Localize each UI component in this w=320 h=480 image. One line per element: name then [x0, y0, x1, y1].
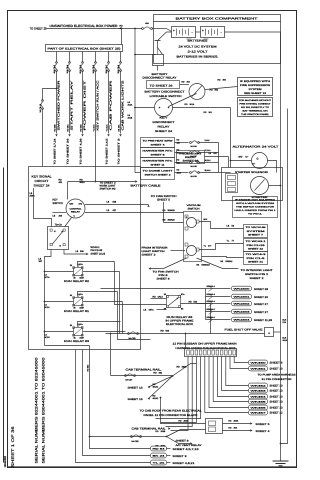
svg-text:2-12 VOLT: 2-12 VOLT — [188, 50, 208, 54]
circuit breaker 9A-C38 — [190, 162, 192, 164]
svg-text:HAS A JUMPER FROM PIN 1: HAS A JUMPER FROM PIN 1 — [235, 209, 277, 212]
svg-text:WK2302: WK2302 — [234, 303, 252, 306]
svg-text:WK455: WK455 — [251, 401, 268, 404]
starter motor — [251, 177, 269, 195]
svg-text:SYSTEM: SYSTEM — [249, 88, 262, 91]
svg-text:SHEET 13: SHEET 13 — [128, 387, 144, 390]
svg-text:YL ACC: YL ACC — [92, 124, 95, 132]
wire run relay feed to sheet rows — [101, 288, 206, 290]
svg-text:SHEET 13: SHEET 13 — [270, 390, 284, 393]
svg-text:G: G — [257, 158, 259, 161]
wire bus down x89 — [90, 346, 151, 449]
wire relay pin 87 bend — [83, 331, 125, 333]
svg-text:PART OF ELECTRICAL BOX (SHEET: PART OF ELECTRICAL BOX (SHEET 25) — [48, 48, 121, 51]
svg-text:WK451: WK451 — [251, 368, 268, 371]
wire fuel valve feed RD 504 — [106, 333, 265, 335]
svg-text:SHEET 1 OF 36: SHEET 1 OF 36 — [11, 427, 15, 468]
svg-text:25A CB-7: 25A CB-7 — [105, 64, 108, 73]
connector terminal — [249, 405, 268, 410]
wire coil to fire suppression note — [205, 87, 238, 90]
svg-text:PIN C1-5: PIN C1-5 — [247, 257, 267, 260]
svg-text:WK2300: WK2300 — [234, 288, 252, 291]
wire alternator BAT to battery cable — [231, 160, 252, 162]
wire branch to sheet — [120, 71, 122, 134]
svg-text:SHEET 4: SHEET 4 — [256, 430, 271, 433]
wire corridor down — [118, 292, 151, 340]
pressure switch vacuum 1 — [187, 218, 197, 228]
svg-text:WK2304: WK2304 — [234, 319, 252, 322]
svg-text:SHEET 2: SHEET 2 — [142, 254, 157, 257]
svg-text:WK2303: WK2303 — [234, 311, 252, 314]
sheet reference HARVESTER RTC SHEET 11 — [141, 158, 175, 168]
wire rail 2 row — [90, 436, 161, 438]
svg-text:TO VACUUM: TO VACUUM — [246, 226, 266, 229]
sheet reference FROM START RELAY SHEET 26 — [177, 151, 205, 164]
svg-text:TO PUMP AREA HARNESS: TO PUMP AREA HARNESS — [258, 374, 297, 377]
wire tap to battery cable bus — [199, 142, 219, 144]
svg-text:328: 328 — [177, 141, 180, 144]
wire busbar drop — [234, 357, 248, 363]
svg-text:SHEET 13: SHEET 13 — [270, 401, 284, 404]
label SHEET 4,5,7,13 — [167, 448, 171, 450]
connector WK2304 — [232, 317, 252, 322]
svg-text:WK456: WK456 — [251, 407, 268, 410]
svg-text:WK453: WK453 — [251, 390, 268, 393]
wire unswitched power bus — [47, 28, 142, 30]
svg-text:9A-C37: 9A-C37 — [126, 379, 134, 382]
svg-text:+: + — [173, 29, 175, 33]
svg-text:RD 40C: RD 40C — [66, 124, 69, 132]
wire into key switch BAT — [67, 182, 69, 200]
wire branch to sheet — [108, 71, 110, 134]
wire tap RD 350A — [175, 172, 189, 174]
svg-text:SHEET 13: SHEET 13 — [270, 385, 284, 388]
svg-text:BK 24: BK 24 — [153, 455, 167, 458]
svg-text:301A: 301A — [190, 103, 195, 106]
svg-text:SHEET 21: SHEET 21 — [248, 261, 264, 264]
svg-text:TO CAB ROOF FROM REAR ELECTRIC: TO CAB ROOF FROM REAR ELECTRICAL — [140, 410, 203, 413]
svg-text:SHEET 8: SHEET 8 — [151, 154, 166, 157]
svg-text:RELAY: RELAY — [71, 211, 81, 214]
svg-text:HARVESTER RTC: HARVESTER RTC — [143, 150, 174, 153]
svg-text:PIN C2+26: PIN C2+26 — [247, 244, 266, 247]
svg-text:RD: RD — [161, 330, 165, 333]
svg-text:SHEET 13: SHEET 13 — [270, 396, 284, 399]
svg-text:CAB POWER: CAB POWER — [109, 81, 113, 131]
svg-text:SHEET 6: SHEET 6 — [270, 362, 284, 365]
sheet reference TO DOME LIGHT SWITCH SHEET 2 — [141, 168, 175, 180]
svg-text:WK2301: WK2301 — [234, 296, 252, 299]
label SHEET 4,8,21 — [167, 462, 171, 464]
svg-text:RD: RD — [177, 366, 181, 369]
wire battery cable down — [230, 108, 232, 168]
sheet reference TO WCA3-1 PIN C2+26 SHEET 22 — [244, 239, 268, 252]
svg-text:4A1A: 4A1A — [158, 296, 164, 299]
wire left branch down — [42, 109, 44, 167]
wire LB 447C feed — [157, 309, 167, 311]
svg-text:T3+C9: T3+C9 — [55, 224, 63, 227]
circuit breaker 60A CB-5 — [82, 62, 84, 64]
svg-text:-: - — [192, 31, 193, 35]
wire tap to battery cable bus — [199, 162, 219, 164]
circuit breaker 9A-C3B — [128, 333, 130, 335]
wire to interior light switch — [197, 258, 239, 269]
solenoid fuel shut off valve — [265, 328, 274, 337]
svg-text:RD 40B: RD 40B — [53, 124, 56, 132]
wire key switch to relay coil — [65, 218, 72, 228]
wire fuse feed 1 — [56, 52, 58, 63]
wire relay to left bus LB 307 — [45, 250, 52, 346]
svg-text:481A1: 481A1 — [153, 386, 160, 389]
svg-text:IF EQUIPPED WITH: IF EQUIPPED WITH — [240, 80, 270, 83]
wire branch RD2300-4 — [206, 303, 231, 305]
svg-text:SYSTEM: SYSTEM — [247, 230, 265, 233]
note IF EQUIPPED WITH FIRE SUPPRESSION SYSTEM SEE SHEET 13 — [238, 78, 273, 96]
wire busbar drop left — [171, 357, 189, 431]
circuit breaker 9A-C3B — [131, 436, 133, 438]
wire busbar drop left — [156, 357, 201, 419]
svg-text:YL 21: YL 21 — [153, 462, 167, 465]
svg-text:SHEET 26: SHEET 26 — [183, 160, 200, 163]
sheet reference TO VACUUM SYSTEM SHEET 7 — [244, 225, 268, 238]
wire secondary ground bus — [281, 109, 288, 444]
wire to lockable switch — [135, 107, 155, 109]
svg-text:CAB WORK LIGHTS: CAB WORK LIGHTS — [121, 80, 125, 130]
svg-text:BK 40A: BK 40A — [117, 124, 120, 131]
circuit breaker 10A CB-6 — [95, 62, 97, 64]
svg-text:KEY: KEY — [160, 117, 168, 120]
busbar 12 pin — [185, 349, 237, 357]
svg-text:SHEET 8: SHEET 8 — [176, 440, 190, 443]
svg-text:YL ACC: YL ACC — [105, 124, 108, 132]
svg-text:SHEET 7: SHEET 7 — [248, 234, 264, 237]
wire fuse feed 3 — [82, 52, 84, 63]
svg-text:POWER DIST: POWER DIST — [83, 80, 87, 131]
svg-text:061A: 061A — [283, 339, 288, 342]
enclosure starter — [222, 168, 283, 201]
svg-text:5353A2: 5353A2 — [226, 260, 234, 263]
svg-text:BATTERY DISCONNECT: BATTERY DISCONNECT — [145, 91, 186, 94]
wire tap down to electrical box — [121, 29, 123, 45]
svg-text:TO PRE-HEAT S/RW: TO PRE-HEAT S/RW — [143, 140, 174, 143]
enclosure BATTERY BOX COMPARTMENT — [154, 15, 281, 64]
svg-text:IF ENGINE NOT EQUIPPED: IF ENGINE NOT EQUIPPED — [235, 198, 276, 201]
svg-text:481A2: 481A2 — [153, 397, 160, 400]
svg-text:RD: RD — [80, 179, 84, 182]
svg-text:WK450: WK450 — [251, 362, 268, 365]
wire sheet 13 branch 2 — [149, 376, 173, 399]
svg-text:SWITCH SHEET 2: SWITCH SHEET 2 — [145, 174, 172, 177]
wire fuse feed 5 — [108, 52, 110, 63]
svg-text:SWITCH: SWITCH — [53, 202, 63, 205]
svg-text:TO SHEET 2,4,5: TO SHEET 2,4,5 — [106, 138, 109, 165]
fuse panel PART OF ELECTRICAL BOX (SHEET 25) — [46, 45, 123, 52]
svg-text:-: - — [221, 31, 222, 35]
connector terminal RD 54 — [151, 446, 167, 451]
note IF ENGINE NOT EQUIPPED WITH A VACUUM SYSTEM — [233, 197, 278, 218]
svg-text:BAT TERMINAL ON: BAT TERMINAL ON — [243, 110, 269, 113]
svg-text:25A CB-8: 25A CB-8 — [117, 64, 120, 73]
wire tap RD 328 — [175, 142, 189, 144]
svg-text:SHEET 11,28: SHEET 11,28 — [254, 319, 273, 322]
wire corridor to fuel row — [119, 272, 121, 334]
svg-text:DISCONNECT RELAY: DISCONNECT RELAY — [143, 77, 177, 80]
svg-text:204A: 204A — [30, 195, 36, 198]
svg-text:SHEET 13: SHEET 13 — [128, 398, 144, 401]
svg-text:SHEET 12: SHEET 12 — [270, 412, 284, 415]
svg-text:SHEET 24: SHEET 24 — [155, 130, 173, 133]
wire corridor to relay 4 — [115, 262, 167, 305]
svg-text:13042365: 13042365 — [4, 455, 7, 467]
svg-text:RUN RELAY #3: RUN RELAY #3 — [64, 340, 90, 343]
enclosure vacuum switch — [184, 212, 202, 262]
wire branch RD2300-2 — [206, 288, 231, 290]
wire fuse feed 2 — [69, 52, 71, 63]
svg-text:8C1A: 8C1A — [45, 306, 51, 309]
svg-text:12 PIN BUSBAR ON UPPER FRAME M: 12 PIN BUSBAR ON UPPER FRAME MAIN — [173, 343, 237, 346]
connector WK2300 — [232, 286, 252, 291]
sheet reference TO PRE-HEAT S/RW SHEET 4 — [141, 138, 175, 148]
svg-text:UNSWITCHED ELECTRICAL BOX POWE: UNSWITCHED ELECTRICAL BOX POWER — [50, 24, 119, 28]
connector terminal — [249, 410, 268, 415]
svg-text:RD: RD — [153, 296, 157, 299]
wire relay coil feed — [45, 271, 74, 273]
svg-text:RD 301 DIRECTLY TO: RD 301 DIRECTLY TO — [241, 106, 269, 109]
svg-text:BLK: BLK — [283, 319, 287, 322]
svg-text:RD: RD — [189, 301, 193, 304]
svg-text:24 VOLT DC SYSTEM: 24 VOLT DC SYSTEM — [179, 45, 218, 49]
svg-text:BATTERIES: BATTERIES — [188, 40, 208, 43]
svg-text:+: + — [202, 29, 204, 33]
svg-text:FROM START: FROM START — [180, 153, 203, 156]
wire fuse feed 4 — [95, 52, 97, 63]
wire tap bus vertical — [218, 143, 220, 173]
wire vacuum switch out 1 — [199, 222, 244, 229]
svg-text:5353A1B: 5353A1B — [202, 264, 211, 267]
wire tap to key signal branch — [43, 89, 57, 101]
wire RD 4818 to busbar — [173, 364, 197, 377]
svg-text:FIRE SUPPRESSION: FIRE SUPPRESSION — [240, 84, 270, 87]
svg-text:8-87a: 8-87a — [78, 293, 84, 296]
svg-text:348: 348 — [177, 161, 180, 164]
svg-text:BAT: BAT — [239, 156, 244, 159]
connector terminal BK 24 — [151, 453, 167, 458]
svg-text:SHEET 5: SHEET 5 — [256, 423, 271, 426]
wire key switch left terminal — [53, 212, 67, 214]
wire left bus turn — [45, 345, 90, 347]
svg-text:TO SHEET 26: TO SHEET 26 — [30, 27, 47, 31]
connector terminal — [249, 366, 268, 371]
svg-text:CAB TERMINAL RAIL: CAB TERMINAL RAIL — [132, 427, 167, 431]
wire branch RD2300-6 — [206, 319, 231, 321]
svg-text:RELAY: RELAY — [158, 126, 170, 129]
svg-text:SHEET 9: SHEET 9 — [173, 455, 188, 458]
connector WK2301 — [232, 294, 252, 299]
circuit breaker 9A-C36 — [190, 142, 192, 144]
svg-text:SHEET 4: SHEET 4 — [151, 144, 166, 147]
wire relay pin 30 bend — [78, 322, 121, 327]
connector terminal — [249, 383, 268, 388]
svg-text:WK454: WK454 — [251, 396, 268, 399]
wire relay output LB 009 — [64, 250, 87, 255]
svg-text:SHEET 28: SHEET 28 — [254, 288, 269, 291]
relay RUN RELAY #1 — [74, 298, 83, 306]
sheet reference HARVESTER RTC SHEET 8 — [141, 148, 175, 158]
svg-text:9A-C36: 9A-C36 — [191, 145, 197, 148]
wire corridor down 2 — [122, 302, 124, 334]
wire LB 437 — [205, 156, 229, 158]
svg-text:CIRCUIT: CIRCUIT — [35, 179, 49, 183]
arrow wire end — [68, 134, 70, 136]
svg-text:447C: 447C — [149, 309, 155, 312]
svg-text:TO SHEET 26: TO SHEET 26 — [150, 84, 174, 87]
svg-text:SWITCH: SWITCH — [188, 207, 200, 210]
svg-text:BATTERY CABLE: BATTERY CABLE — [131, 184, 161, 188]
svg-text:8C7A: 8C7A — [45, 276, 51, 279]
wire to battery positive — [153, 28, 167, 30]
wire relay coil feed — [45, 301, 74, 303]
svg-text:TO PIN 2.: TO PIN 2. — [248, 212, 263, 215]
svg-text:350A: 350A — [177, 171, 182, 174]
sheet reference TO SHEET 26 — [147, 81, 180, 89]
wire from interior light switch — [171, 250, 186, 252]
wire key switch ACC out — [85, 204, 149, 206]
svg-text:TO SHEET 3: TO SHEET 3 — [118, 137, 121, 164]
svg-text:9A-C39: 9A-C39 — [191, 175, 197, 178]
svg-text:SHEET 22,23: SHEET 22,23 — [91, 252, 106, 255]
wire busbar drop — [205, 357, 249, 413]
svg-text:3,1A2: 3,1A2 — [205, 139, 210, 142]
wire to battery disconnect contact — [135, 54, 156, 56]
svg-text:STARTER SOLENOID: STARTER SOLENOID — [235, 171, 268, 174]
circuit breaker 25A CB-8 — [120, 62, 122, 64]
wire key switch feed — [95, 71, 97, 182]
arrow wire end — [119, 134, 121, 136]
svg-text:SHEET 11: SHEET 11 — [151, 164, 166, 167]
wire relay pin 87 bend — [83, 271, 119, 273]
svg-text:SHEET 8: SHEET 8 — [157, 278, 171, 281]
connector terminal — [249, 360, 268, 365]
wire vacuum switch out 2 — [199, 244, 244, 250]
wire alternator to starter — [268, 161, 277, 173]
wire to WC4 box — [202, 257, 244, 258]
wire sheet 13 branch 1 — [149, 376, 173, 387]
wire bus down x82 — [83, 350, 151, 456]
battery BAT2 — [201, 27, 225, 38]
circuit breaker 9A-C37 — [190, 152, 192, 154]
svg-text:202A: 202A — [128, 104, 133, 107]
wire feed to sheet branches — [205, 289, 207, 320]
wire RD 253A out — [223, 423, 251, 425]
svg-text:SHEET 24: SHEET 24 — [34, 184, 50, 188]
wire tap RD 348 — [175, 162, 189, 164]
svg-text:RD2300-4: RD2300-4 — [207, 300, 215, 303]
svg-text:ELECTRICAL BOX: ELECTRICAL BOX — [166, 323, 193, 326]
wire to disconnect coil — [180, 84, 190, 86]
connector terminal — [249, 388, 268, 393]
arrow to work light switch — [135, 180, 137, 182]
wire cab light feed turn — [135, 172, 141, 174]
node rail fan — [151, 375, 173, 377]
wire branch to sheet — [56, 71, 58, 134]
svg-text:THE SWITCH CONNECTOR: THE SWITCH CONNECTOR — [236, 205, 275, 208]
svg-text:RELAY: RELAY — [185, 156, 197, 159]
wire to fan switch — [151, 258, 187, 269]
relay ECM control relay — [48, 227, 69, 250]
arrow SHEET 5 — [250, 422, 252, 424]
wire relay 4 output — [181, 304, 211, 334]
svg-text:SHEET 4,5,7,13: SHEET 4,5,7,13 — [173, 448, 200, 451]
svg-text:1: 1 — [186, 216, 187, 219]
svg-text:353A1B: 353A1B — [168, 219, 176, 222]
wire busbar drop — [213, 357, 248, 402]
wire starter to ground bus — [269, 185, 281, 187]
circuit breaker 9A-C37 — [125, 375, 127, 377]
svg-text:SHEET 5: SHEET 5 — [157, 199, 171, 202]
svg-text:202B: 202B — [128, 117, 133, 120]
note FOR MACHINES WITHOUT FIRE SYSTEM — [238, 98, 273, 117]
svg-text:253A: 253A — [234, 420, 239, 423]
svg-text:TO INTERIOR LIGHT: TO INTERIOR LIGHT — [241, 269, 274, 272]
node rail 2 fan — [166, 436, 168, 438]
circuit breaker CB-2 — [142, 28, 144, 30]
svg-text:SHEET 22: SHEET 22 — [248, 248, 264, 251]
relay coil battery disconnect — [189, 84, 205, 100]
svg-text:3A CB-10: 3A CB-10 — [39, 103, 42, 112]
svg-text:SWITCH #2: SWITCH #2 — [100, 188, 117, 191]
wire to work light switch — [96, 181, 136, 183]
connector WK2303 — [232, 309, 252, 314]
svg-text:THE IGNITION PANEL: THE IGNITION PANEL — [241, 113, 270, 116]
svg-text:SHEET 13: SHEET 13 — [270, 407, 284, 410]
svg-text:WITH A VACUUM SYSTEM: WITH A VACUUM SYSTEM — [236, 202, 274, 205]
svg-text:START RELAY: START RELAY — [70, 80, 74, 130]
svg-text:RD2300-2: RD2300-2 — [207, 285, 215, 288]
svg-text:10A CB-4: 10A CB-4 — [66, 64, 69, 73]
svg-text:9A-C38: 9A-C38 — [191, 165, 197, 168]
wire cab light feed — [134, 29, 136, 173]
svg-text:TO SHEET 3,7,24: TO SHEET 3,7,24 — [54, 138, 57, 165]
svg-text:ALTERNATOR 24 VOLT: ALTERNATOR 24 VOLT — [233, 146, 280, 149]
connector terminal — [249, 399, 268, 404]
arrow wire end — [81, 134, 83, 136]
wire RD 253 out — [223, 430, 251, 432]
wire busbar drop left — [161, 357, 197, 423]
wire busbar drop — [226, 357, 249, 386]
wire tap to battery cable bus — [199, 172, 219, 174]
wire key feed into switch — [68, 181, 96, 183]
switch battery disconnect lockable — [155, 99, 173, 117]
svg-text:8-87a: 8-87a — [78, 323, 84, 326]
svg-text:35,4A1: 35,4A1 — [205, 169, 211, 172]
svg-text:SERIAL NUMBERS 83044001 TO 830: SERIAL NUMBERS 83044001 TO 83045000 — [42, 358, 46, 464]
boundary box cab circuits — [29, 167, 141, 350]
sheet reference TO WC4-3 PIN C1-5 SHEET 21 — [244, 252, 268, 265]
svg-text:RD2300-6: RD2300-6 — [207, 316, 215, 319]
svg-text:RD: RD — [59, 179, 63, 182]
svg-text:10A CB-6: 10A CB-6 — [92, 64, 95, 73]
wire branch RD2300-3 — [206, 296, 231, 298]
relay RUN RELAY #3 — [74, 328, 83, 336]
wire RD 253B up branch — [167, 430, 206, 437]
svg-text:WK457: WK457 — [251, 412, 268, 415]
svg-text:253A: 253A — [184, 420, 189, 423]
circuit breaker 40A CB-3 — [56, 62, 58, 64]
wire busbar drop — [209, 357, 249, 408]
svg-text:HARVESTER RTC: HARVESTER RTC — [143, 160, 174, 163]
battery BAT1 — [172, 27, 196, 38]
svg-text:DISCONNECT: DISCONNECT — [153, 121, 176, 124]
